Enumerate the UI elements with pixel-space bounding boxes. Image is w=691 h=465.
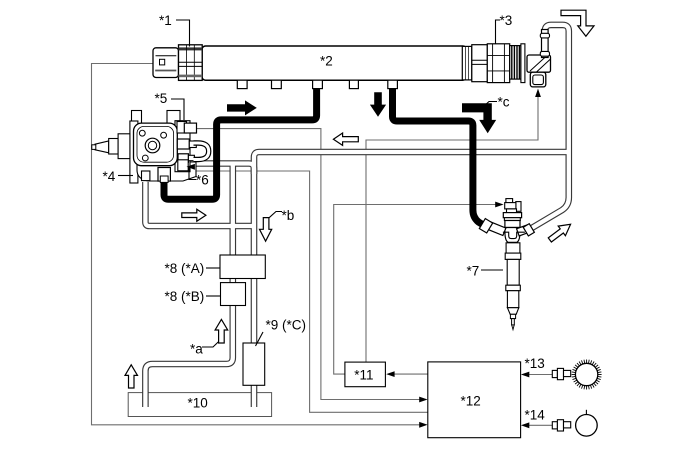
svg-text:*c: *c [498,95,510,110]
pump bolt holes [139,130,145,136]
fuel temp sensor *6 [178,160,188,171]
outline arrow diagonal (injector return) [546,219,574,244]
thick pipe rail to injector [393,82,483,224]
wire ECU *12 to EDU *11 [391,373,428,375]
leader *7 [481,269,503,271]
pump shaft rings [109,139,118,155]
svg-text:*1: *1 [159,13,172,28]
leader *8A [206,267,220,269]
discharge valve elbow [527,55,551,72]
svg-text:*a: *a [190,342,203,357]
hex [472,45,488,82]
pump bottom outlet fitting [158,168,170,182]
pressure sensor *1 connector [153,48,179,78]
leader *b [269,212,282,218]
solid arrow down (rail to injector) [370,92,386,117]
arrowhead into EDU [386,371,394,377]
solid arrow right (pump to rail) [227,100,257,115]
fuel filter *8 (*B) [221,283,246,306]
svg-text:*12: *12 [461,394,481,409]
rail tab 4 [349,80,358,88]
svg-text:*11: *11 [354,368,373,383]
injector return arm [517,225,531,236]
ring [462,46,472,80]
leader *3 [496,20,501,44]
pressure limiter *3 assembly right of rail [462,44,525,83]
leader *5 [171,99,184,120]
pump lower housing [137,162,196,181]
discharge valve connector bracket [530,72,546,87]
leader *4 [118,175,133,177]
SCV connector *5 [184,123,196,133]
arrowhead at fuel temp sensor *6 [187,164,195,170]
fuel filter *8 (*A) [220,255,265,279]
svg-text:*7: *7 [467,264,480,279]
solid L arrow *c [462,103,496,133]
arrowhead into ECU (SCV wire) [419,397,427,403]
pump top tab [132,111,142,125]
leader *1 [176,20,190,47]
injector return collar (right) [523,224,534,236]
svg-text:*2: *2 [320,54,333,69]
svg-text:*b: *b [282,208,295,223]
pump bottom overflow fitting [142,171,150,181]
pump rear housing [175,121,190,172]
wire SCV *5 to ECU *12 [196,129,424,400]
injector connector [506,199,513,203]
svg-text:*5: *5 [155,91,168,106]
leader *8B [206,295,221,297]
SCV fitting top [177,122,187,134]
return standpipe [540,30,549,58]
pipe rail return to injector leak-off [532,25,569,228]
threaded body [487,44,509,83]
outline arrow right (overflow) [182,209,206,221]
rail tab 3 [313,80,323,88]
injector body sections [506,243,520,253]
dark ring [510,46,521,80]
EDU box *11 [345,362,386,387]
arrowhead into ECU from cam sensor [521,422,529,428]
arrowhead into ECU (pressure sensor wire) [419,422,427,428]
rail tab 1 [237,80,247,88]
arrowhead up into discharge valve [535,89,541,97]
pipe pump inlet horizontal [196,164,254,175]
leader *a [202,342,219,347]
svg-text:*8 (*A): *8 (*A) [165,261,205,276]
leader *c [484,102,498,107]
pump inlet fitting low [178,154,188,162]
outline hook arrow top right [561,10,594,36]
outline arrow up *a [215,319,228,343]
svg-text:*13: *13 [525,356,545,371]
fuel filter *9 (*C) [243,343,265,385]
injector inlet collar (left) [479,219,492,233]
svg-text:*14: *14 [525,407,546,422]
pump jumper loop pipe [194,143,209,160]
svg-text:*10: *10 [188,396,208,411]
cam position sensor *14 [552,415,597,437]
pump left bracket [130,121,138,183]
fuel rail *2 [202,46,466,80]
wire EDU *11 to injector *7 [334,205,496,375]
crank sensor teeth [572,360,602,390]
wire EDU *11 to discharge valve [366,96,538,363]
pipe pump overflow return [145,182,254,226]
rail tab 2 [272,80,282,88]
arrowhead into ECU from crank sensor [521,372,529,378]
outline arrow left (return direction) [333,133,358,145]
pipe main return line and filter C branch [254,152,569,407]
svg-text:*6: *6 [196,173,209,188]
injector Y body trunk [505,228,520,243]
pipe suction tank to filters to pump [145,164,232,408]
leader *9C [256,332,264,346]
thick pipe pump to rail [164,82,317,199]
wire rail pressure sensor *1 to ECU *12 [92,64,425,425]
injector inlet arm [487,222,506,236]
wire cam sensor *14 to ECU [526,424,553,426]
svg-text:*4: *4 [103,169,116,184]
wire crank sensor *13 to ECU [526,374,553,376]
pump main body [134,123,178,166]
svg-text:*8 (*B): *8 (*B) [165,289,205,304]
pressure sensor *1 hex nut [179,45,203,81]
svg-text:*9 (*C): *9 (*C) [266,318,307,333]
crank position sensor *13 [552,363,598,385]
plate [521,44,525,83]
fuel tank *10 [128,393,271,417]
pump top-right tab [167,111,180,125]
pump drive shaft cone [95,141,109,153]
injector U notch [503,232,525,238]
pump outlet fitting mid [177,139,189,149]
pump camshaft center circle [145,138,160,153]
cam sensor notch [585,410,587,415]
injector upper collar [503,213,521,218]
rail tab 5 [388,80,398,88]
outline arrow down *b [260,218,272,242]
ECU box *12 [428,362,521,438]
outline arrow up (tank suction) [125,365,138,388]
hose white cores [145,25,568,407]
svg-text:*3: *3 [500,13,513,28]
injector stem [507,209,517,213]
arrowhead into injector [495,202,503,208]
wire fuel temp sensor *6 to ECU *12 [186,171,428,412]
leader line *6 [189,167,197,180]
